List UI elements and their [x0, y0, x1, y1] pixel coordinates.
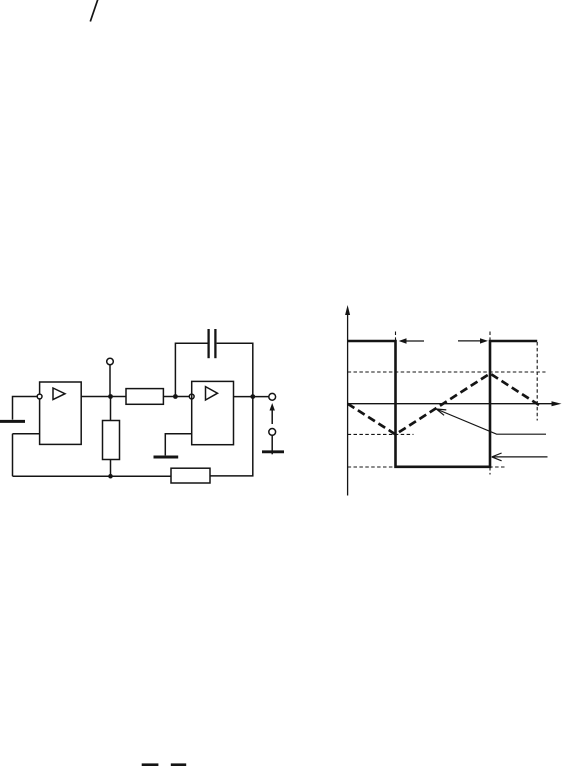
annotation leader to triangle wave	[438, 410, 547, 435]
dashed vertical at falling edge	[395, 332, 397, 343]
resistor R2	[126, 389, 163, 405]
wire U2 non-inverting input	[165, 434, 191, 456]
wire U2 output	[234, 396, 269, 398]
wire R1 to node D	[110, 460, 112, 477]
triangle wave (thick dashed)	[348, 374, 541, 435]
dashed helper line square low level	[348, 466, 505, 468]
wire R2 to U2 input	[163, 396, 189, 398]
wire U1 inverting input	[13, 397, 38, 420]
output terminal lower (open circle)	[269, 429, 276, 436]
wire U1 non-inverting input	[13, 433, 40, 435]
pulse width arrow left	[401, 340, 425, 342]
wire terminal to node A	[109, 365, 111, 397]
wire U1 output	[81, 396, 126, 398]
wire capacitor to node C	[217, 343, 253, 396]
resistor R1	[103, 421, 120, 460]
wire bottom feedback	[13, 475, 172, 477]
dashed helper line triangle max level	[348, 371, 546, 373]
node C junction	[250, 394, 255, 399]
wire lower terminal to ground	[271, 435, 273, 454]
output terminal upper (open circle)	[269, 393, 276, 400]
node A junction	[108, 394, 113, 399]
output voltage arrow (up)	[271, 408, 273, 425]
dashed helper line triangle min level	[348, 433, 414, 435]
horizontal axis	[348, 403, 555, 405]
op-amp U2 triangle symbol	[206, 387, 218, 400]
op-amp U2 inverting input bubble	[189, 394, 194, 399]
ground bar left (page edge)	[0, 420, 25, 423]
dashed vertical below rising edge	[489, 467, 491, 475]
terminal input (open circle)	[107, 358, 114, 365]
text fragment bars bottom (cut off characters)	[142, 763, 159, 766]
node D junction	[108, 474, 113, 479]
capacitor C1 left plate	[207, 329, 209, 358]
stray slash mark top	[90, 0, 98, 22]
vertical axis	[347, 311, 349, 496]
ground bar below U2	[154, 456, 179, 459]
square wave (thick)	[348, 341, 538, 467]
resistor R3	[171, 468, 210, 483]
op-amp U2 body	[192, 381, 234, 444]
op-amp U1 triangle symbol	[53, 388, 65, 400]
dashed vertical at period end	[536, 342, 538, 421]
op-amp U1 inverting input bubble	[37, 394, 42, 399]
wire left feedback vertical	[12, 434, 14, 477]
ground bar output port	[262, 450, 284, 453]
annotation leader to square rising edge	[493, 456, 548, 458]
dashed vertical at rising edge	[489, 332, 491, 343]
wire node A to R1	[110, 397, 112, 421]
capacitor C1 right plate	[214, 329, 216, 358]
pulse width arrow right	[458, 340, 485, 342]
wire node B to capacitor	[175, 343, 207, 396]
node B junction	[173, 394, 178, 399]
wire feedback node C to R3	[210, 397, 253, 476]
op-amp U1 body	[40, 382, 82, 444]
